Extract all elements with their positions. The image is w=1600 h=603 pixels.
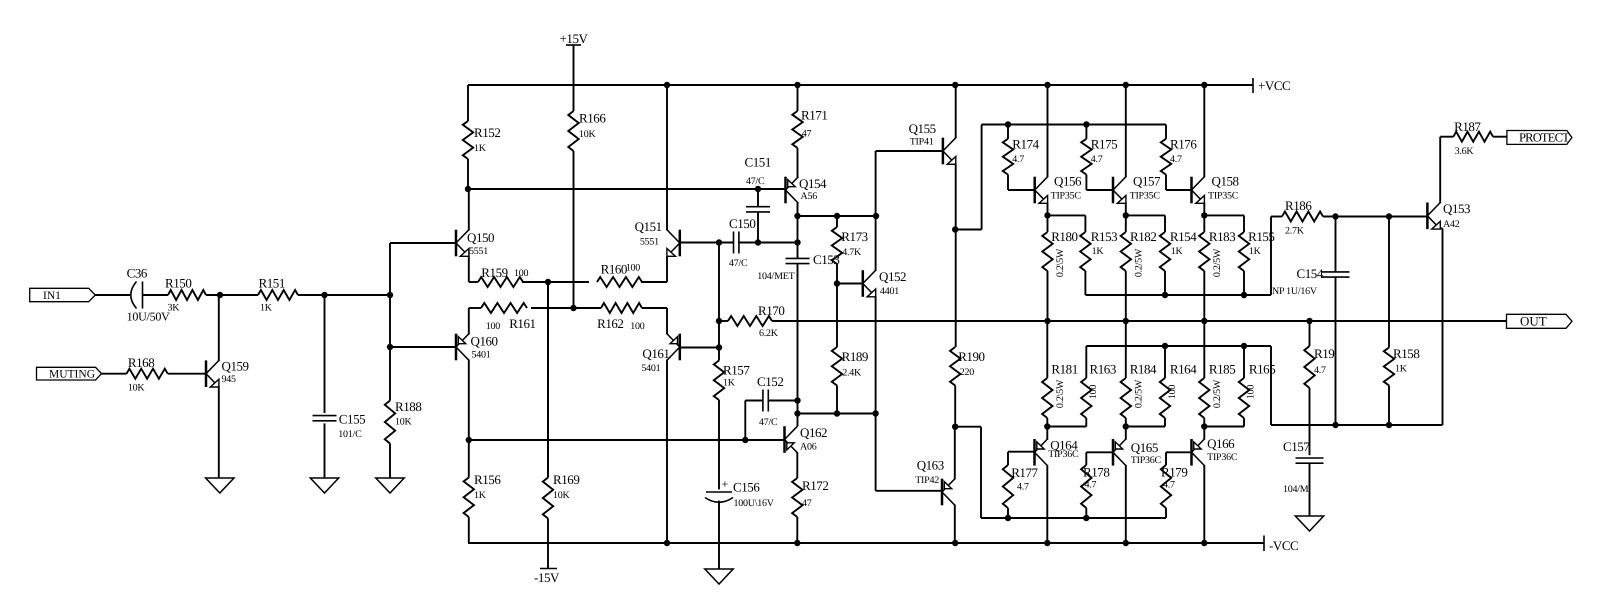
resistor R162 — [597, 303, 645, 332]
svg-text:Q162: Q162 — [800, 425, 827, 440]
wire Q164 collector — [1046, 465, 1048, 543]
resistor R172 — [792, 478, 828, 543]
node R173 top — [834, 213, 840, 219]
transistor Q161 — [641, 334, 679, 374]
transistor Q162 — [785, 425, 828, 453]
wire input node to Q160 base — [389, 295, 391, 401]
resistor R155 — [1239, 229, 1275, 295]
wire R152 to Q154 base — [468, 188, 786, 190]
node R158 top — [1386, 213, 1392, 219]
transistor Q153 — [1427, 201, 1470, 230]
resistor R174 — [1003, 125, 1040, 175]
node Q155 emitter node — [952, 226, 958, 232]
svg-text:4.7: 4.7 — [1091, 154, 1103, 165]
svg-text:TIP35C: TIP35C — [1130, 191, 1161, 202]
transistor Q157 — [1113, 174, 1161, 204]
svg-text:R187: R187 — [1454, 119, 1481, 134]
resistor R182 — [1121, 229, 1157, 321]
node Q161 collector at -VCC — [664, 540, 670, 546]
svg-text:100: 100 — [1088, 385, 1099, 400]
wire C155 stem — [324, 295, 326, 413]
node C155 tap — [321, 292, 327, 298]
wire C151 top — [757, 189, 759, 207]
node R158 bottom — [1386, 422, 1392, 428]
svg-text:4.7: 4.7 — [1012, 154, 1024, 165]
wire R169 upper lead — [547, 282, 549, 478]
wire Q150 collector — [468, 189, 470, 230]
node C154 bottom — [1332, 422, 1338, 428]
svg-text:10K: 10K — [579, 129, 597, 140]
svg-text:10U/50V: 10U/50V — [127, 310, 171, 324]
svg-text:R186: R186 — [1285, 198, 1312, 213]
wire Q157 emitter — [1125, 203, 1127, 232]
svg-text:+: + — [722, 477, 729, 491]
svg-text:1K: 1K — [1395, 364, 1408, 375]
svg-text:TIP36C: TIP36C — [1207, 452, 1238, 463]
svg-text:Q155: Q155 — [909, 121, 936, 136]
resistor R190 — [950, 347, 985, 427]
svg-text:104/MET: 104/MET — [757, 271, 794, 282]
transistor Q150 — [456, 230, 494, 257]
resistor R170 — [719, 303, 784, 339]
wire Q162 emitter — [796, 452, 798, 478]
node C151 bottom tee — [755, 239, 761, 245]
node Q160 base tap — [387, 344, 393, 350]
node Q155 collector at rail — [952, 82, 958, 88]
wire Q151 collector — [666, 85, 668, 230]
node Q161 base tee — [716, 344, 722, 350]
svg-text:TIP35C: TIP35C — [1208, 191, 1239, 202]
resistor R19 — [1304, 321, 1334, 388]
resistor R171 — [792, 85, 827, 148]
transistor Q151 — [635, 219, 680, 256]
node Q166 collector at -VCC — [1201, 540, 1207, 546]
wire R162 to Q161 emitter — [642, 308, 667, 334]
capacitor C156 — [705, 477, 775, 509]
resistor R178 — [1081, 465, 1109, 519]
wire lower bias rail — [469, 439, 785, 441]
svg-text:TIP42: TIP42 — [915, 475, 939, 486]
wire R177 to Q164 base — [1008, 452, 1035, 465]
svg-text:0.2/5W: 0.2/5W — [1212, 379, 1223, 408]
svg-text:4.7K: 4.7K — [842, 247, 862, 258]
resistor R189 — [832, 284, 868, 414]
svg-text:R177: R177 — [1011, 465, 1038, 480]
wire Q160 base — [390, 346, 456, 348]
svg-text:Q153: Q153 — [1443, 201, 1470, 216]
wire C152 left lead — [745, 401, 763, 441]
wire Q165 emitter to R164 — [1126, 418, 1165, 427]
transistor Q166 — [1192, 436, 1238, 466]
transistor Q155 — [909, 121, 956, 164]
power terminal +VCC — [1253, 78, 1290, 93]
svg-text:C156: C156 — [733, 480, 760, 495]
resistor R186 — [1282, 198, 1323, 237]
svg-text:10K: 10K — [128, 382, 145, 393]
node input node — [387, 292, 393, 298]
capacitor C152 — [757, 374, 783, 428]
wire R179 to Q166 base — [1166, 452, 1192, 465]
svg-text:1K: 1K — [1092, 246, 1105, 257]
node Q152 base tee — [834, 280, 840, 286]
wire Q164 emitter — [1046, 427, 1048, 440]
svg-text:TIP36C: TIP36C — [1048, 449, 1079, 460]
svg-text:Q158: Q158 — [1212, 174, 1239, 189]
wire R166 to diff node — [573, 151, 575, 308]
node R154 bottom — [1162, 292, 1168, 298]
svg-text:R174: R174 — [1012, 137, 1039, 152]
node R152 bottom — [465, 186, 471, 192]
port MUTING — [37, 367, 102, 380]
node C154 top — [1332, 213, 1338, 219]
svg-text:PROTECT: PROTECT — [1519, 130, 1570, 144]
capacitor C151 — [745, 155, 771, 212]
ground under Q159 — [206, 478, 234, 493]
wire C157 to ground — [1309, 463, 1311, 516]
svg-text:Q163: Q163 — [917, 458, 944, 473]
node Q156 collector at rail — [1044, 82, 1050, 88]
svg-text:5401: 5401 — [472, 350, 491, 361]
wire R187 to PROTECT — [1493, 136, 1507, 138]
svg-text:4.7: 4.7 — [1314, 365, 1326, 376]
wire R176 to Q158 base — [1166, 175, 1192, 190]
transistor Q165 — [1113, 439, 1162, 466]
resistor R183 — [1199, 229, 1235, 321]
transistor Q159 — [206, 359, 249, 388]
wire Q159 emitter — [218, 386, 220, 478]
resistor R176 — [1161, 125, 1198, 175]
svg-text:R168: R168 — [128, 355, 154, 370]
svg-text:100: 100 — [1246, 385, 1257, 400]
svg-text:-VCC: -VCC — [1269, 538, 1298, 553]
svg-text:R19: R19 — [1314, 346, 1334, 361]
svg-text:A06: A06 — [800, 442, 817, 453]
svg-text:100: 100 — [514, 268, 529, 279]
svg-text:+15V: +15V — [560, 31, 589, 46]
wire R169 to -15V — [547, 519, 549, 569]
node Q164 collector at -VCC — [1044, 540, 1050, 546]
resistor R156 — [464, 440, 502, 543]
wire Q156 emitter to R153 — [1048, 215, 1086, 232]
svg-text:4.7: 4.7 — [1017, 482, 1029, 493]
svg-text:R178: R178 — [1083, 465, 1109, 480]
node R155 bottom — [1241, 292, 1247, 298]
svg-text:TIP41: TIP41 — [910, 137, 934, 148]
capacitor C154 — [1272, 266, 1350, 297]
wire lower drive link — [955, 427, 1166, 518]
node R183 at out rail — [1201, 318, 1207, 324]
svg-text:C152: C152 — [757, 374, 783, 389]
svg-text:R154: R154 — [1170, 229, 1197, 244]
node R165 top — [1241, 343, 1247, 349]
svg-text:Q154: Q154 — [799, 176, 827, 191]
resistor R175 — [1081, 125, 1117, 175]
wire R19 to C157 — [1309, 388, 1311, 455]
svg-text:R161: R161 — [509, 316, 535, 331]
wire R161 to R162 — [531, 307, 601, 309]
transistor Q164 — [1035, 438, 1079, 466]
svg-text:0.2/5W: 0.2/5W — [1134, 379, 1145, 408]
ground under C157 — [1295, 516, 1323, 531]
ground under R188 — [376, 478, 404, 493]
transistor Q156 — [1035, 174, 1082, 204]
svg-text:R163: R163 — [1090, 362, 1116, 377]
svg-text:R166: R166 — [579, 111, 606, 126]
wire R174 to Q156 base — [1008, 175, 1035, 190]
wire Q158 emitter to R155 — [1204, 215, 1244, 232]
wire Q160 emitter — [468, 308, 470, 334]
wire Q158 emitter — [1203, 203, 1205, 232]
wire R157 to C156 — [718, 400, 720, 489]
node Q162 collector node — [794, 410, 800, 416]
transistor Q163 — [915, 458, 955, 506]
wire Q161 base — [680, 347, 719, 349]
svg-text:R173: R173 — [841, 229, 867, 244]
svg-text:C151: C151 — [745, 155, 771, 170]
wire Q166 emitter to R165 — [1204, 418, 1244, 427]
wire C154 top lead — [1335, 217, 1337, 272]
svg-text:R181: R181 — [1051, 362, 1077, 377]
node Q154 collector tee — [794, 239, 800, 245]
svg-text:0.2\5W: 0.2\5W — [1055, 248, 1066, 277]
svg-text:C157: C157 — [1283, 439, 1310, 454]
node Q158 emitter node — [1201, 212, 1207, 218]
wire Q165 emitter — [1125, 427, 1127, 440]
svg-text:47: 47 — [802, 498, 812, 509]
wire Q151 base — [680, 242, 733, 244]
svg-text:1K: 1K — [1171, 246, 1184, 257]
transistor Q152 — [863, 269, 906, 297]
wire R186 to Q153 base — [1323, 216, 1427, 218]
node Q151 collector at rail — [664, 82, 670, 88]
resistor R179 — [1161, 465, 1188, 519]
svg-text:Q161: Q161 — [642, 346, 669, 361]
wire C155 to ground — [324, 423, 326, 478]
wire Q156 collector — [1047, 85, 1049, 177]
svg-text:C36: C36 — [127, 266, 148, 281]
wire upper drive link — [955, 125, 1166, 230]
svg-text:R162: R162 — [597, 316, 623, 331]
node R174 top — [1005, 121, 1011, 127]
wire C154 bottom lead — [1335, 277, 1337, 425]
svg-text:1K: 1K — [1249, 246, 1262, 257]
resistor R150 — [165, 276, 206, 314]
svg-text:R175: R175 — [1091, 137, 1117, 152]
svg-text:0.2\5W: 0.2\5W — [1055, 379, 1066, 408]
wire IN1 to C36 — [95, 294, 130, 296]
wire Q162 collector wire — [798, 413, 877, 415]
svg-text:R179: R179 — [1161, 465, 1187, 480]
svg-text:R184: R184 — [1130, 362, 1157, 377]
svg-text:220: 220 — [960, 367, 975, 378]
svg-text:10K: 10K — [553, 490, 571, 501]
svg-text:R150: R150 — [165, 276, 191, 291]
node emitter junction A — [545, 279, 551, 285]
wire Q153 emitter — [1440, 228, 1442, 425]
svg-text:R157: R157 — [723, 363, 750, 378]
svg-text:+VCC: +VCC — [1258, 78, 1290, 93]
resistor R173 — [832, 216, 868, 264]
svg-text:R169: R169 — [553, 472, 579, 487]
svg-text:R185: R185 — [1209, 362, 1235, 377]
svg-text:1K: 1K — [474, 143, 487, 154]
resistor R181 — [1042, 321, 1078, 427]
resistor R159 — [469, 265, 529, 287]
wire Q157 emitter to R154 — [1126, 215, 1165, 232]
capacitor C153 — [757, 252, 839, 282]
wire Q158 collector — [1203, 85, 1205, 177]
node Q165 collector at -VCC — [1123, 540, 1129, 546]
svg-text:OUT: OUT — [1520, 313, 1547, 328]
node C151 top tee — [755, 186, 761, 192]
svg-text:Q165: Q165 — [1131, 440, 1158, 455]
node R178 bottom — [1083, 515, 1089, 521]
resistor R165 — [1239, 346, 1275, 418]
port OUT — [1507, 313, 1573, 328]
resistor R153 — [1080, 229, 1117, 295]
wire Q166 emitter — [1203, 427, 1205, 440]
wire R178 to Q165 base — [1086, 452, 1113, 465]
wire Q159 collector — [219, 295, 220, 361]
svg-text:R171: R171 — [801, 108, 827, 123]
wire R151 to input node — [298, 294, 390, 296]
wire C153 to C152 node — [797, 264, 799, 427]
svg-text:Q150: Q150 — [467, 230, 494, 245]
svg-text:R188: R188 — [395, 399, 421, 414]
svg-text:TIP35C: TIP35C — [1051, 191, 1082, 202]
svg-text:100: 100 — [626, 263, 641, 274]
svg-text:101/C: 101/C — [338, 429, 362, 440]
node diff tail — [570, 305, 576, 311]
node R182 at out rail — [1123, 318, 1129, 324]
node R170 tee — [716, 318, 722, 324]
node R171 at rail — [794, 82, 800, 88]
ground under C156 — [705, 569, 733, 584]
node C152 left tee — [742, 437, 748, 443]
wire Q163 base — [876, 490, 942, 492]
svg-text:R160: R160 — [601, 261, 627, 276]
svg-text:R176: R176 — [1170, 137, 1197, 152]
svg-text:2.7K: 2.7K — [1285, 226, 1305, 237]
svg-text:R172: R172 — [802, 478, 828, 493]
svg-text:R151: R151 — [259, 276, 285, 291]
wire Q150 emitter — [468, 256, 470, 282]
wire OUT rail — [772, 320, 1507, 322]
node R177 bottom — [1005, 515, 1011, 521]
svg-text:R189: R189 — [842, 349, 868, 364]
resistor R164 — [1160, 346, 1197, 418]
svg-text:1K: 1K — [260, 303, 273, 314]
wire +VCC rail — [468, 84, 1253, 86]
svg-text:945: 945 — [222, 374, 237, 385]
wire Q154 collector — [797, 203, 799, 259]
power terminal +15V — [560, 31, 589, 46]
wire Q153 collector — [1440, 137, 1453, 204]
wire Q155 emitter — [955, 164, 957, 347]
svg-text:100: 100 — [630, 321, 645, 332]
svg-text:Q166: Q166 — [1207, 436, 1235, 451]
svg-text:100U\16V: 100U\16V — [734, 498, 775, 509]
wire Q152 collector — [876, 151, 943, 271]
wire sense lower link — [1271, 346, 1443, 425]
svg-text:5551: 5551 — [640, 237, 659, 248]
svg-text:4.7: 4.7 — [1170, 154, 1182, 165]
resistor R163 — [1081, 346, 1116, 418]
node Q165 emitter node — [1123, 423, 1129, 429]
node VAS node — [794, 213, 800, 219]
node Q152 emitter tee — [872, 410, 878, 416]
svg-text:1K: 1K — [723, 378, 736, 389]
svg-text:47: 47 — [802, 129, 812, 140]
resistor R154 — [1160, 229, 1197, 295]
node Q163 emitter node — [952, 424, 958, 430]
svg-text:3.6K: 3.6K — [1455, 146, 1475, 157]
wire C151 bottom — [757, 212, 759, 243]
resistor R188 — [385, 399, 422, 478]
wire feedback node column — [718, 243, 720, 361]
wire -VCC rail — [468, 542, 1264, 544]
wire Q163 collector — [954, 505, 956, 543]
svg-text:A56: A56 — [801, 191, 818, 202]
resistor R187 — [1453, 119, 1493, 157]
wire C150 to Q154 collector — [739, 242, 797, 244]
resistor R151 — [258, 276, 298, 314]
wire sense lower top — [1086, 345, 1271, 347]
svg-text:Q156: Q156 — [1054, 174, 1082, 189]
wire R171 to Q154 emitter — [797, 148, 799, 177]
svg-text:104/M: 104/M — [1283, 484, 1309, 495]
node Q164 emitter node — [1044, 423, 1050, 429]
node x719 top — [716, 239, 722, 245]
wire C36 to R150 — [143, 294, 169, 296]
svg-text:1K: 1K — [474, 490, 487, 501]
svg-text:5401: 5401 — [641, 363, 660, 374]
node Q158 collector at rail — [1201, 82, 1207, 88]
wire input node to Q150 base — [390, 243, 456, 295]
wire Q165 collector — [1125, 465, 1127, 543]
resistor R158 — [1384, 217, 1420, 426]
resistor R177 — [1003, 465, 1039, 518]
wire Q156 emitter — [1047, 203, 1049, 232]
capacitor C155 — [313, 412, 366, 441]
node Q152 collector top — [873, 213, 879, 219]
svg-text:R170: R170 — [758, 303, 784, 318]
svg-text:100: 100 — [1167, 385, 1178, 400]
svg-text:R153: R153 — [1091, 229, 1117, 244]
svg-text:R158: R158 — [1393, 346, 1419, 361]
svg-text:R180: R180 — [1051, 229, 1077, 244]
svg-text:R165: R165 — [1249, 362, 1275, 377]
wire MUTING to R168 — [102, 373, 127, 375]
power terminal -15V — [534, 569, 560, 586]
wire R173 to Q152 base — [837, 264, 863, 284]
svg-text:47/C: 47/C — [729, 258, 748, 269]
node R164 top — [1162, 343, 1168, 349]
node Q157 emitter node — [1123, 212, 1129, 218]
svg-text:Q159: Q159 — [222, 359, 249, 374]
capacitor C150 — [729, 216, 755, 269]
wire Q152 emitter — [875, 296, 877, 491]
svg-text:A42: A42 — [1443, 219, 1460, 230]
port PROTECT — [1507, 130, 1572, 144]
wire +15V stem — [573, 45, 575, 111]
svg-text:Q157: Q157 — [1133, 174, 1161, 189]
svg-text:0.2/5W: 0.2/5W — [1212, 248, 1223, 277]
svg-text:NP 1U/16V: NP 1U/16V — [1272, 286, 1318, 297]
resistor R184 — [1121, 321, 1157, 427]
svg-text:Q160: Q160 — [471, 334, 498, 349]
node lower rail left — [466, 437, 472, 443]
